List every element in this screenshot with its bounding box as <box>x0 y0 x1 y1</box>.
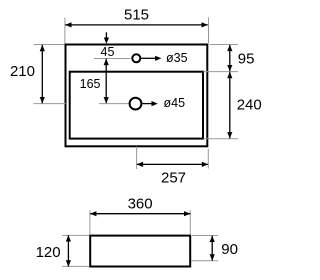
hole circle ø35 <box>132 54 140 62</box>
svg-text:45: 45 <box>101 45 115 59</box>
svg-text:ø35: ø35 <box>166 51 188 65</box>
svg-text:ø45: ø45 <box>164 96 186 110</box>
extension line top of dim 210 <box>34 44 65 46</box>
extension line left (hole centerline) for dim 257 <box>136 147 138 170</box>
dimension line 257 <box>137 162 208 167</box>
dimension line 240 <box>227 72 232 138</box>
extension line bottom left of dim 120 <box>62 265 89 267</box>
centerline of hole 35 <box>94 58 131 60</box>
svg-text:257: 257 <box>161 170 186 187</box>
extension line right for dim 257 <box>207 149 209 169</box>
leader arrow for ø45 <box>142 101 157 106</box>
centerline of hole 45 (segment before circle) <box>99 103 129 105</box>
svg-text:90: 90 <box>221 241 238 258</box>
hole circle ø45 <box>130 98 142 110</box>
dimension line 95 <box>227 45 232 72</box>
extension line right bottom (bowl bottom) for dim 240 <box>204 138 239 140</box>
side view rectangle <box>90 236 190 267</box>
extension line right middle (bowl top) for dims 95/240 <box>204 71 239 73</box>
dimension line 90 <box>210 236 215 261</box>
leader arrow for ø35 <box>141 56 161 61</box>
dimension line 210 <box>40 45 45 103</box>
svg-text:360: 360 <box>128 195 153 212</box>
outer rectangle of basin top view <box>66 45 208 147</box>
dimension line 120 <box>66 235 71 266</box>
svg-text:120: 120 <box>36 244 61 261</box>
extension line right top (rim) for dim 95 <box>210 44 239 46</box>
extension line bottom of dim 210 (hole centerline left) <box>34 103 66 105</box>
dim 45 upper arrow (above rim, pointing down) <box>104 32 109 44</box>
extension line right of dim 515 <box>208 18 210 44</box>
inner rectangle (bowl) of top view <box>70 72 203 139</box>
dimension line 360 <box>90 211 190 216</box>
svg-text:95: 95 <box>238 51 255 68</box>
svg-text:515: 515 <box>124 6 149 23</box>
dimension line 515 <box>65 22 208 27</box>
extension line bottom right of dim 90 <box>191 260 218 262</box>
extension line top left of dim 120 <box>62 234 89 236</box>
extension line left of dim 360 <box>89 210 91 234</box>
svg-text:165: 165 <box>80 77 101 91</box>
svg-text:240: 240 <box>237 97 262 114</box>
extension line left of dim 515 <box>64 18 66 44</box>
svg-text:210: 210 <box>10 63 35 80</box>
extension line top right of dim 90 <box>192 235 218 237</box>
dimension line 165 <box>104 59 109 104</box>
extension line right of dim 360 <box>189 210 191 234</box>
